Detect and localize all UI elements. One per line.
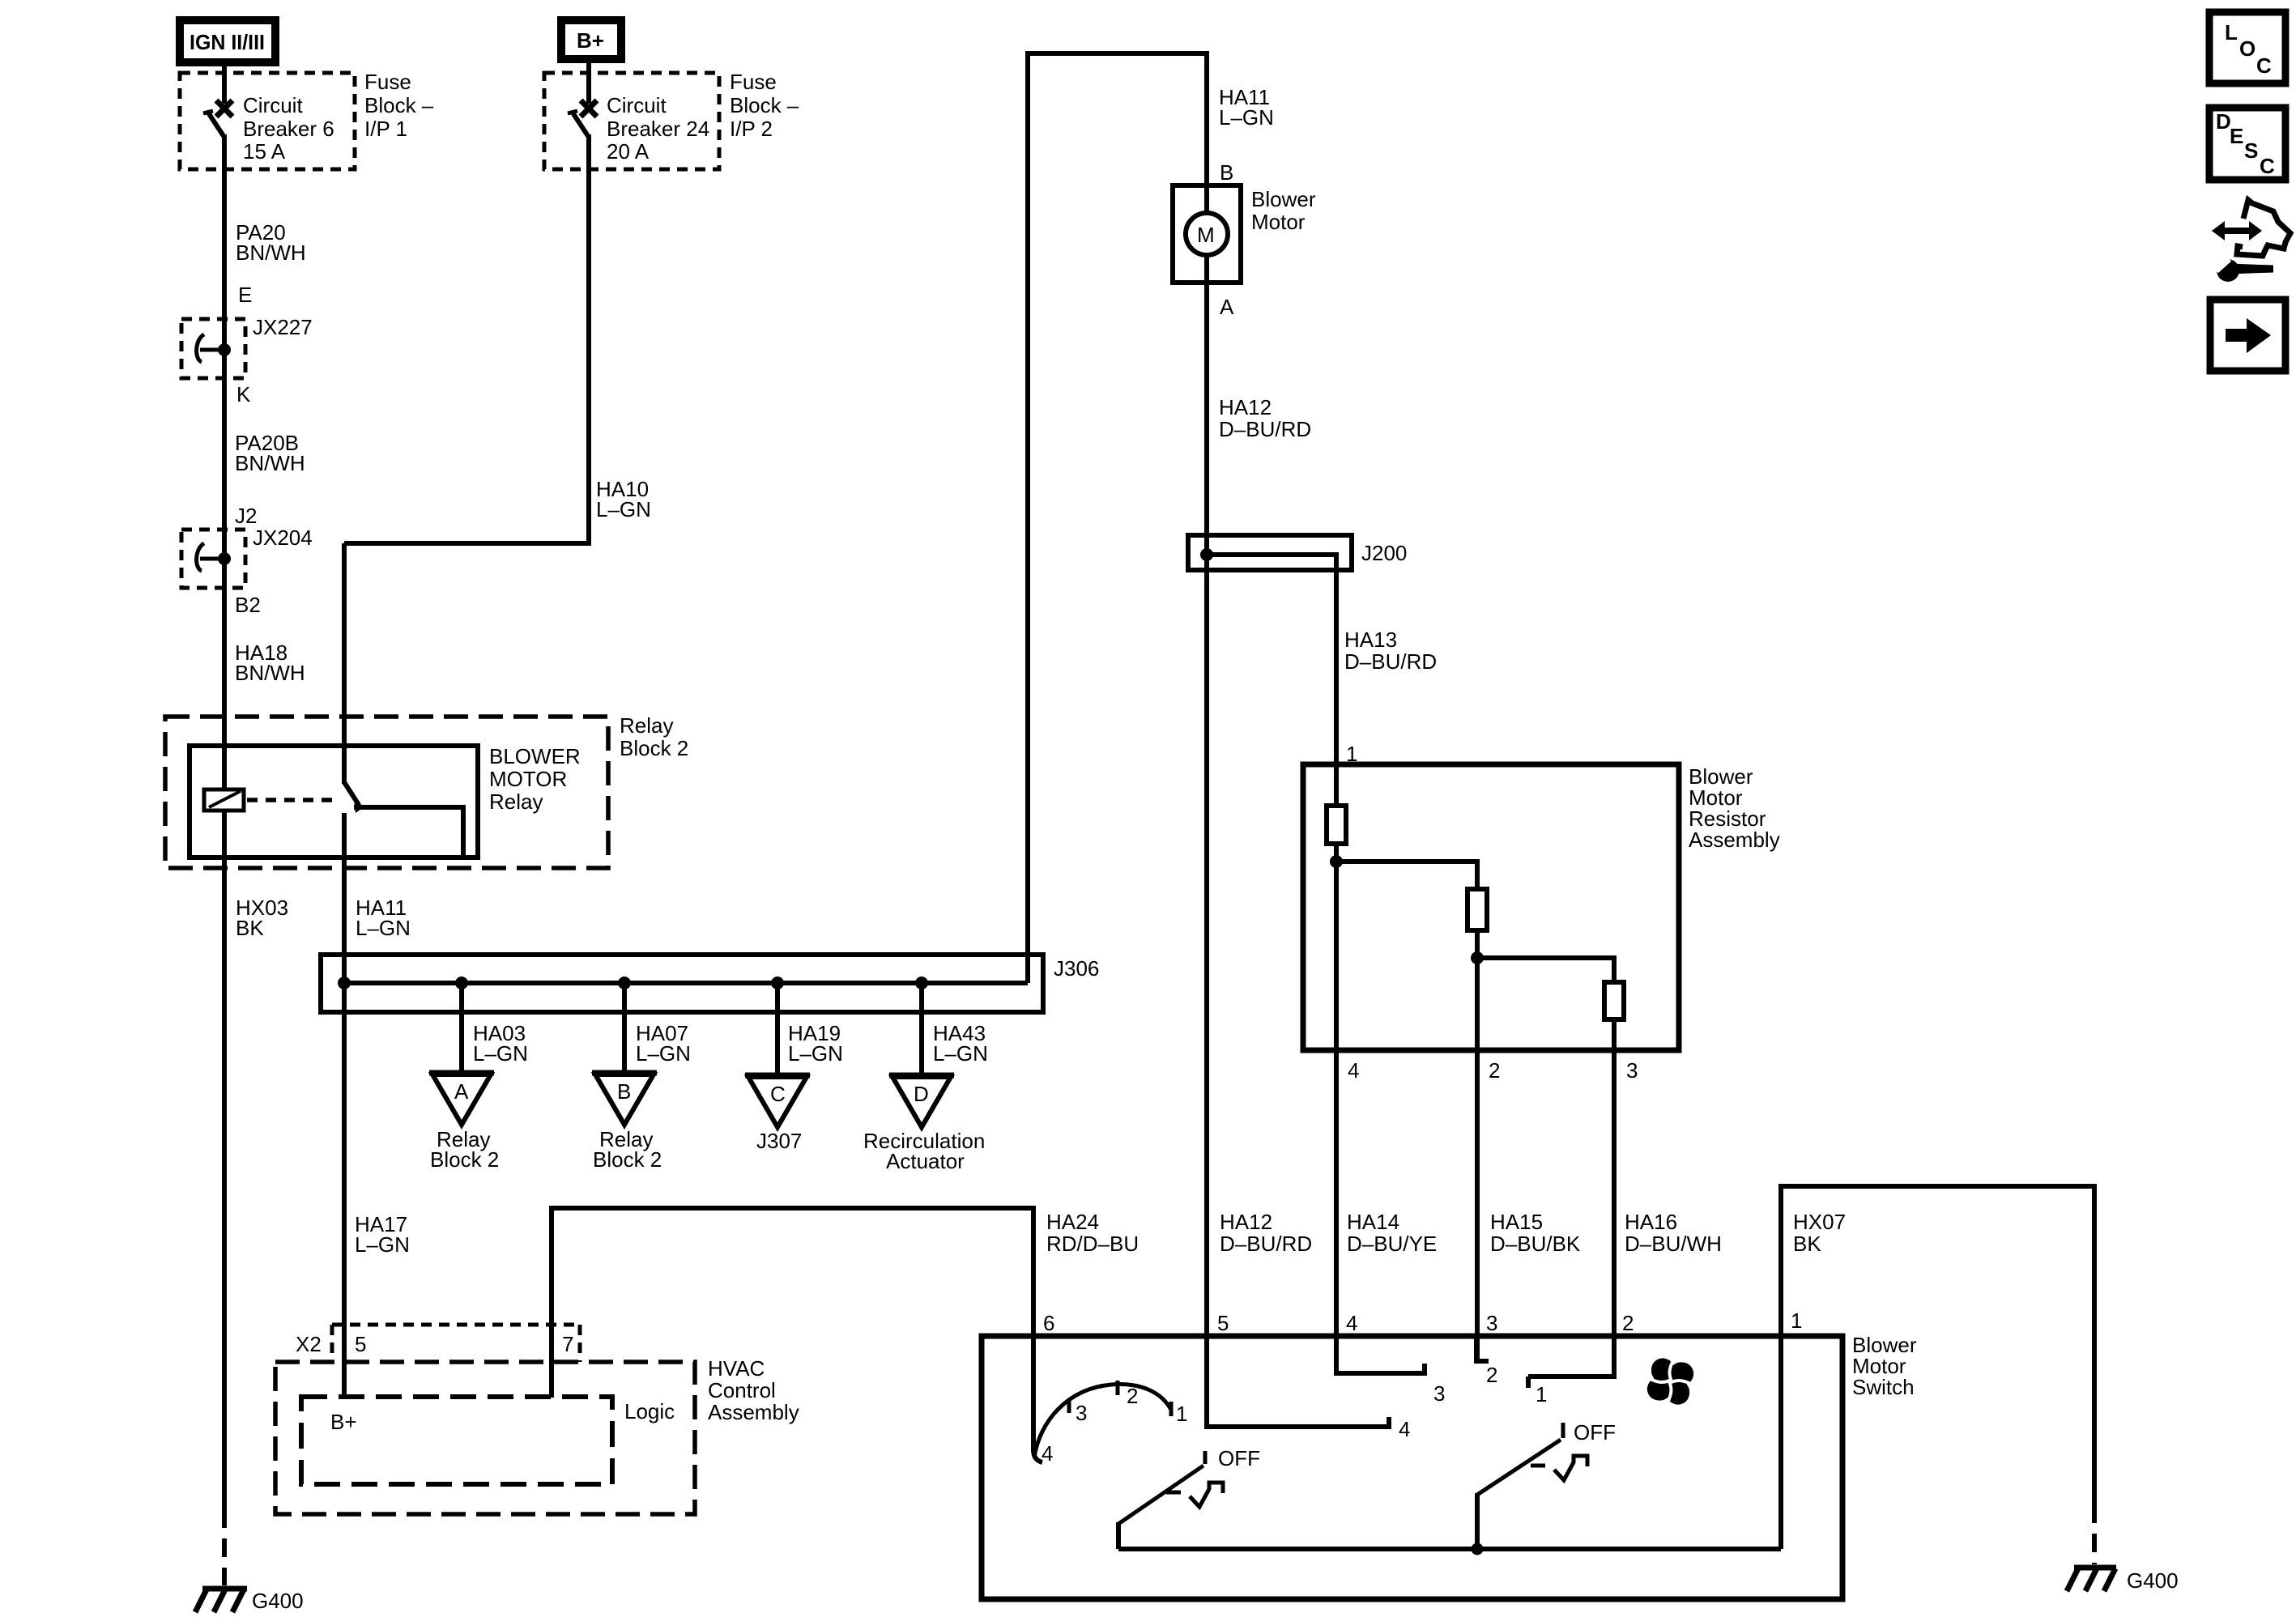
svg-text:Block 2: Block 2	[430, 1147, 499, 1172]
label HA19 L-GN	[788, 1021, 843, 1066]
wire HA10 L-GN	[344, 134, 589, 543]
wire HA03 L-GN tap	[459, 983, 464, 1074]
switch internal bus	[1118, 1547, 1781, 1551]
svg-text:4: 4	[1348, 1058, 1359, 1083]
svg-text:Switch: Switch	[1852, 1375, 1915, 1399]
arc tick position 3	[1067, 1398, 1071, 1413]
label HA13 D-BU/RD	[1344, 628, 1437, 674]
relay mechanical link (dashed)	[247, 798, 338, 802]
svg-text:BN/WH: BN/WH	[235, 661, 305, 685]
label Blower Motor	[1251, 187, 1316, 234]
label HA24 RD/D-BU	[1046, 1210, 1139, 1256]
svg-text:Assembly: Assembly	[1689, 828, 1780, 852]
svg-text:Assembly: Assembly	[708, 1400, 799, 1424]
splice pack J200	[1188, 535, 1352, 570]
svg-text:JX227: JX227	[253, 315, 313, 339]
svg-text:Breaker 24: Breaker 24	[607, 117, 709, 141]
svg-text:D–BU/YE: D–BU/YE	[1347, 1232, 1437, 1256]
pin 2 contact tick	[1526, 1377, 1531, 1388]
wire HA07 L-GN tap	[622, 983, 627, 1074]
svg-text:4: 4	[1042, 1441, 1053, 1466]
svg-text:HA24: HA24	[1046, 1210, 1099, 1234]
svg-text:L–GN: L–GN	[1219, 105, 1274, 130]
power feed box IGN II/III	[180, 20, 275, 62]
pin 4 contact tick	[1422, 1364, 1427, 1376]
label HA15 D-BU/BK	[1490, 1210, 1581, 1256]
svg-text:Control: Control	[708, 1378, 776, 1402]
dashed ground drop (right)	[2092, 1504, 2097, 1564]
wire HA43 L-GN tap	[919, 983, 924, 1077]
svg-text:D–BU/RD: D–BU/RD	[1344, 649, 1437, 674]
svg-text:3: 3	[1486, 1311, 1497, 1335]
power feed box B+	[561, 20, 621, 59]
svg-text:3: 3	[1433, 1381, 1445, 1406]
svg-text:HX07: HX07	[1793, 1210, 1846, 1234]
svg-text:JX204: JX204	[253, 526, 313, 550]
svg-text:G400: G400	[2127, 1568, 2179, 1593]
svg-text:BN/WH: BN/WH	[236, 240, 306, 265]
pin 5 contact wire	[1207, 1336, 1389, 1427]
blower motor resistor assembly box	[1303, 764, 1679, 1050]
svg-text:L–GN: L–GN	[788, 1041, 843, 1066]
blower motor switch box	[982, 1336, 1842, 1599]
wire HA11 L-GN relay output down to J306 and on to HVAC	[342, 813, 347, 1398]
svg-text:G400: G400	[252, 1589, 304, 1613]
svg-text:Fuse: Fuse	[730, 70, 777, 94]
label Blower Motor Switch	[1852, 1333, 1917, 1399]
fan icon	[1648, 1359, 1693, 1403]
in-line connector JX204	[181, 530, 245, 588]
svg-text:1: 1	[1176, 1402, 1187, 1426]
pin 3 contact tick	[1474, 1359, 1489, 1364]
blower motor relay body	[190, 746, 478, 857]
rotary contact arc	[1034, 1385, 1171, 1457]
label HA10 L-GN	[596, 477, 651, 521]
svg-text:20 A: 20 A	[607, 139, 650, 164]
label Fuse Block - I/P 1	[364, 70, 434, 141]
label HX03 BK	[236, 896, 288, 940]
circuit breaker 24 (20 A)	[568, 59, 597, 136]
svg-text:D–BU/RD: D–BU/RD	[1220, 1232, 1312, 1256]
svg-text:Motor: Motor	[1251, 210, 1306, 234]
svg-text:D–BU/WH: D–BU/WH	[1625, 1232, 1722, 1256]
svg-text:X2: X2	[296, 1332, 322, 1356]
svg-text:L–GN: L–GN	[636, 1041, 691, 1066]
svg-text:7: 7	[562, 1332, 573, 1356]
svg-text:IGN II/III: IGN II/III	[190, 30, 265, 54]
label HA07 L-GN	[636, 1021, 691, 1066]
svg-text:Block 2: Block 2	[620, 736, 688, 760]
detent symbol (right)	[1531, 1456, 1587, 1480]
switch blade 1 (left, OFF)	[1118, 1451, 1205, 1549]
svg-text:BLOWER: BLOWER	[489, 744, 581, 768]
wire HX07 BK pin 1 to G400	[1781, 1186, 2094, 1549]
svg-text:B2: B2	[235, 593, 261, 617]
label Fuse Block - I/P 2	[730, 70, 799, 141]
svg-text:L–GN: L–GN	[355, 1232, 410, 1257]
icon repair/diagnosis (arrows, panel outline, wrench)	[2212, 200, 2290, 282]
label PA20 BN/WH	[236, 220, 306, 265]
pin 2 contact wire	[1528, 1336, 1614, 1377]
svg-text:Circuit: Circuit	[243, 93, 303, 117]
svg-text:HVAC: HVAC	[708, 1356, 765, 1381]
wire HA24 RD/D-BU from HVAC pin 7 to switch pin 6	[552, 1208, 1033, 1398]
ground G400 (left)	[195, 1589, 247, 1612]
off-page triangle D	[889, 1075, 954, 1127]
svg-text:J200: J200	[1361, 541, 1407, 565]
svg-text:3: 3	[1626, 1058, 1638, 1083]
label Circuit Breaker 24 20 A	[607, 93, 709, 164]
connector X2 dashed box	[332, 1325, 580, 1362]
wire HA12 D-BU/RD motor to J200 to switch pin 5	[1204, 283, 1209, 1336]
off-page triangle C	[745, 1075, 810, 1127]
svg-text:2: 2	[1486, 1363, 1497, 1387]
label HA03 L-GN	[473, 1021, 528, 1066]
svg-text:6: 6	[1043, 1311, 1054, 1335]
resistor R2	[1467, 889, 1487, 930]
svg-text:D–BU/RD: D–BU/RD	[1219, 417, 1311, 441]
svg-text:L–GN: L–GN	[596, 497, 651, 521]
svg-text:Block 2: Block 2	[593, 1147, 662, 1172]
ground wire dashed to G400 (left)	[222, 1509, 227, 1585]
svg-text:15 A: 15 A	[243, 139, 286, 164]
svg-text:HA12: HA12	[1220, 1210, 1272, 1234]
label Relay Block 2 (A)	[430, 1127, 499, 1172]
label HA17 L-GN	[355, 1212, 410, 1257]
svg-text:L–GN: L–GN	[473, 1041, 528, 1066]
rotary wiper wire (pin 6)	[1033, 1336, 1042, 1462]
label HVAC Control Assembly	[708, 1356, 799, 1424]
resistor R1	[1327, 806, 1346, 844]
relay switch blade	[344, 782, 364, 813]
svg-text:Block –: Block –	[730, 93, 799, 117]
svg-text:Relay: Relay	[620, 713, 673, 738]
svg-text:Relay: Relay	[489, 789, 543, 814]
svg-text:Actuator: Actuator	[886, 1149, 965, 1173]
svg-text:2: 2	[1622, 1311, 1634, 1335]
svg-text:L–GN: L–GN	[356, 916, 411, 940]
svg-text:S: S	[2244, 138, 2258, 163]
label BLOWER MOTOR Relay	[489, 744, 581, 814]
icon box DESC	[2209, 108, 2285, 180]
svg-text:2: 2	[1489, 1058, 1500, 1083]
junction dot on bus	[1472, 1543, 1484, 1555]
svg-text:Breaker 6: Breaker 6	[243, 117, 334, 141]
svg-text:HA15: HA15	[1490, 1210, 1543, 1234]
splice pack J306	[321, 955, 1043, 1012]
detent symbol (left)	[1166, 1483, 1223, 1507]
relay block 2 dashed box	[165, 717, 608, 868]
pin 5 contact tick	[1387, 1417, 1391, 1429]
blower motor M	[1173, 185, 1241, 283]
svg-text:OFF: OFF	[1218, 1446, 1260, 1470]
relay coil	[204, 789, 244, 811]
svg-text:O: O	[2239, 36, 2256, 61]
svg-text:C: C	[2260, 154, 2275, 178]
svg-text:J306: J306	[1054, 956, 1099, 981]
in-line connector JX227	[181, 319, 245, 378]
svg-text:D: D	[2216, 109, 2231, 134]
svg-text:BK: BK	[1793, 1232, 1821, 1256]
relay fixed contact	[354, 807, 463, 860]
svg-text:B: B	[617, 1079, 631, 1104]
svg-text:Logic: Logic	[624, 1399, 675, 1423]
svg-text:MOTOR: MOTOR	[489, 767, 567, 791]
svg-text:I/P 2: I/P 2	[730, 117, 773, 141]
pin 3 contact wire	[1474, 1336, 1479, 1361]
svg-text:E: E	[2230, 124, 2243, 148]
svg-text:Fuse: Fuse	[364, 70, 411, 94]
wire node1 to R2	[1336, 862, 1477, 1360]
wire node2 to R3	[1477, 958, 1614, 1377]
label Blower Motor Resistor Assembly	[1689, 764, 1780, 852]
label Recirculation Actuator	[863, 1129, 985, 1173]
wire PA20 BN/WH	[222, 134, 227, 1511]
svg-text:J307: J307	[756, 1129, 802, 1153]
svg-text:4: 4	[1399, 1417, 1410, 1441]
svg-text:HA12: HA12	[1219, 395, 1272, 419]
off-page triangle B	[592, 1073, 657, 1125]
wire HA19 L-GN tap	[775, 983, 780, 1077]
svg-text:BN/WH: BN/WH	[235, 451, 305, 475]
svg-text:5: 5	[355, 1332, 366, 1356]
fuse block I/P 2 dashed box	[544, 73, 719, 169]
node after R1	[1330, 855, 1343, 868]
svg-text:4: 4	[1346, 1311, 1357, 1335]
svg-text:C: C	[770, 1082, 786, 1106]
svg-text:HA16: HA16	[1625, 1210, 1677, 1234]
label HA18 BN/WH	[235, 640, 305, 685]
svg-text:HA14: HA14	[1347, 1210, 1399, 1234]
resistor R3	[1604, 982, 1624, 1019]
label HA11 L-GN (relay output)	[356, 896, 411, 940]
svg-text:B+: B+	[577, 28, 604, 53]
label HA12 D-BU/RD (lower)	[1220, 1210, 1312, 1256]
svg-text:K: K	[236, 382, 251, 406]
label HA11 L-GN (top)	[1219, 85, 1274, 130]
icon box forward arrow	[2210, 300, 2285, 371]
svg-text:D–BU/BK: D–BU/BK	[1490, 1232, 1581, 1256]
label HX07 BK	[1793, 1210, 1846, 1256]
label Circuit Breaker 6 15 A	[243, 93, 334, 164]
pin 4 contact wire	[1336, 1336, 1425, 1373]
svg-text:B: B	[1220, 160, 1233, 185]
logic module dashed box	[301, 1397, 612, 1484]
svg-text:3: 3	[1076, 1401, 1087, 1425]
fuse block I/P 1 dashed box	[180, 73, 355, 169]
svg-text:D: D	[914, 1082, 929, 1106]
svg-text:2: 2	[1127, 1384, 1138, 1408]
svg-text:L–GN: L–GN	[933, 1041, 988, 1066]
(part of resistor pin 4 wire above)	[1347, 1210, 1437, 1256]
svg-text:Blower: Blower	[1251, 187, 1316, 211]
svg-text:HA13: HA13	[1344, 628, 1397, 652]
svg-text:J2: J2	[235, 504, 257, 528]
ground G400 (right)	[2067, 1568, 2116, 1591]
svg-text:OFF: OFF	[1574, 1420, 1616, 1445]
label Relay Block 2 (top right of box)	[620, 713, 688, 760]
HVAC control assembly dashed box	[275, 1362, 695, 1514]
svg-text:I/P 1: I/P 1	[364, 117, 407, 141]
circuit breaker 6 (15 A)	[203, 62, 232, 136]
svg-text:Circuit: Circuit	[607, 93, 667, 117]
label PA20B BN/WH	[235, 431, 305, 475]
svg-text:1: 1	[1791, 1308, 1802, 1333]
off-page triangle A	[429, 1073, 494, 1125]
svg-text:L: L	[2225, 20, 2238, 45]
arc tick position 2	[1116, 1381, 1120, 1395]
label HA16 D-BU/WH	[1625, 1210, 1722, 1256]
svg-text:BK: BK	[236, 916, 264, 940]
svg-text:C: C	[2256, 53, 2272, 78]
label HA43 L-GN	[933, 1021, 988, 1066]
icon box LOC	[2209, 12, 2285, 83]
svg-text:RD/D–BU: RD/D–BU	[1046, 1232, 1139, 1256]
node after R2	[1471, 951, 1484, 964]
svg-text:A: A	[1220, 295, 1234, 319]
switch blade 2 (right, OFF)	[1477, 1423, 1563, 1549]
svg-text:5: 5	[1217, 1311, 1229, 1335]
svg-text:M: M	[1197, 223, 1215, 247]
relay switch wire from HA10	[342, 543, 347, 784]
wire HA11 L-GN riser from J306 to blower motor	[1028, 53, 1207, 983]
svg-text:E: E	[238, 283, 252, 307]
svg-text:A: A	[454, 1079, 469, 1104]
svg-text:Block –: Block –	[364, 93, 434, 117]
svg-text:1: 1	[1536, 1382, 1547, 1406]
label Relay Block 2 (B)	[593, 1127, 662, 1172]
arc tick position 1	[1169, 1402, 1174, 1416]
svg-text:B+: B+	[330, 1410, 357, 1434]
label HA12 D-BU/RD (upper)	[1219, 395, 1311, 441]
wire HA13 D-BU/RD from J200 to resistor assembly	[1334, 570, 1339, 1374]
